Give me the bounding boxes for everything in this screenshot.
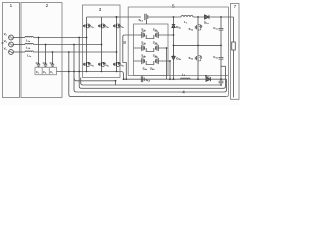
- transistor S2a top: [99, 24, 102, 28]
- wire phase a cont: [33, 37, 86, 39]
- bridge top rail: [87, 16, 142, 18]
- svg-text:5: 5: [172, 3, 175, 8]
- S2a: [142, 32, 145, 38]
- pair FETs: [142, 31, 158, 64]
- tap wire b down: [73, 45, 75, 72]
- wire phase b: [13, 44, 25, 46]
- svg-text:S3b: S3b: [120, 65, 123, 67]
- transistor S2b bottom: [99, 62, 102, 66]
- S4b: [155, 58, 158, 64]
- inductor L1a: [25, 36, 33, 37]
- inductor L2: [181, 78, 191, 79]
- pair1 U link: [146, 35, 154, 39]
- transistor S3b bottom: [114, 62, 117, 66]
- wire U2: [79, 66, 225, 88]
- capacitor C1b: [219, 45, 224, 79]
- pair1 wires: [123, 35, 174, 79]
- svg-text:8: 8: [123, 40, 126, 45]
- svg-text:3: 3: [99, 7, 102, 12]
- switch Sb1 inline: [145, 14, 148, 24]
- junction dots: [38, 16, 222, 86]
- pair3 drop: [169, 61, 171, 79]
- box 7 (load block): [231, 4, 240, 100]
- diode D2a (up): [172, 24, 175, 27]
- bridge leg 3: [116, 17, 118, 72]
- wire A: [74, 77, 116, 85]
- x mark on border: [2, 42, 4, 44]
- inductor L1b: [25, 43, 33, 44]
- box 2 (filter block): [21, 3, 62, 98]
- node vertical: [173, 17, 175, 24]
- box 1 (source block): [3, 3, 20, 98]
- box 8 (bidirectional switch block): [134, 24, 169, 76]
- load resistor R: [232, 42, 236, 50]
- tap wire c down: [68, 52, 70, 72]
- source Vb: [9, 42, 14, 47]
- svg-text:S2a: S2a: [105, 26, 108, 28]
- filter capacitor Ca: [37, 38, 40, 68]
- svg-text:4: 4: [182, 89, 185, 94]
- bridge leg 1: [86, 17, 88, 72]
- box 3 (rectifier bridge): [83, 5, 121, 78]
- pair3 wires: [134, 60, 171, 62]
- pair2 U link: [146, 48, 154, 52]
- svg-text:S2b: S2b: [105, 65, 108, 67]
- source Vc: [9, 50, 14, 55]
- diode D1a: [205, 15, 210, 19]
- pair2 drop: [166, 48, 168, 79]
- svg-text:S1a: S1a: [90, 26, 93, 28]
- inductor L1c: [25, 51, 33, 52]
- bridge transistors: [84, 24, 121, 66]
- wire phase c cont: [33, 51, 116, 53]
- inductor L1: [181, 16, 193, 17]
- bridge leg 2: [101, 17, 103, 72]
- transistor S3a top: [114, 24, 117, 28]
- load wire top: [233, 17, 235, 42]
- wire U4: [69, 72, 227, 97]
- S2b: [155, 32, 158, 38]
- tap wire a down: [78, 38, 80, 72]
- transistor S1a top: [84, 24, 87, 28]
- S4a: [142, 58, 145, 64]
- capacitor C1a: [219, 17, 224, 45]
- transistor S1b bottom: [84, 62, 87, 66]
- svg-text:S3a: S3a: [120, 26, 123, 28]
- svg-text:2: 2: [46, 3, 49, 8]
- load wire bottom: [233, 50, 235, 97]
- wire phase b cont: [33, 44, 101, 46]
- wire U3: [74, 72, 227, 93]
- svg-text:S1b: S1b: [90, 65, 93, 67]
- diode D2b (down): [172, 45, 175, 59]
- bottom converter wire: [124, 78, 227, 80]
- capacitor label boxes: [35, 67, 57, 74]
- box 5 (converter block): [128, 7, 228, 97]
- wire phase c: [13, 51, 25, 53]
- filter capacitor Cb: [44, 45, 47, 68]
- diode D1b: [206, 77, 211, 81]
- svg-text:7: 7: [234, 4, 237, 9]
- wire phase a: [13, 37, 25, 39]
- filter capacitor Cc: [51, 52, 54, 67]
- branch S1b: [197, 17, 199, 25]
- source Va: [9, 35, 14, 40]
- capacitor C2b: [219, 79, 224, 85]
- common rail: [57, 72, 124, 80]
- switch Sb2 inline: [141, 76, 144, 82]
- mid rail: [174, 44, 222, 46]
- wire U1: [81, 78, 222, 86]
- pair3 U link: [146, 61, 154, 65]
- S3b: [155, 45, 158, 51]
- svg-text:1: 1: [10, 3, 13, 8]
- branch S2c vertical: [197, 45, 199, 55]
- pair2 wires: [134, 47, 167, 49]
- cap C1b bottom link: [221, 65, 226, 67]
- S3a: [142, 45, 145, 51]
